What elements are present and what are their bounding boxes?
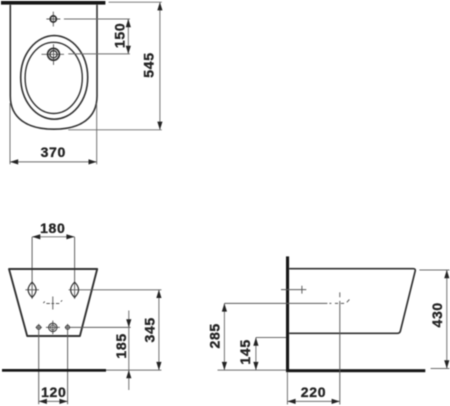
svg-text:150: 150 <box>111 23 127 48</box>
drain hole crosshair <box>46 321 60 335</box>
dimension 370 arrow left <box>10 159 18 164</box>
dimension 545 line <box>159 2 161 130</box>
dimension 430 arrow up <box>444 270 449 278</box>
drain centerline vertical (220 extension) <box>339 292 341 404</box>
small water inlet hole crosshair <box>46 12 60 27</box>
drain centerline horizontal (285 extension) <box>224 300 349 304</box>
dimension 285 line <box>223 303 225 370</box>
dimension 120 arrow right <box>59 399 67 404</box>
dimension 430 line <box>446 270 448 369</box>
left small hole centerline (extends to 120 dim) <box>38 324 40 404</box>
extension line left (220) <box>286 372 288 404</box>
dimension 145 arrow down <box>253 362 258 370</box>
extension line 145 top <box>256 337 286 339</box>
small water inlet hole <box>50 16 56 22</box>
dimension 285 arrow up <box>222 303 227 311</box>
bowl inner rim oval <box>25 42 82 113</box>
svg-text:285: 285 <box>206 323 222 348</box>
nozzle centerline vertical <box>52 297 54 310</box>
right fixing hole <box>71 282 79 297</box>
dimension 180 line <box>32 236 75 238</box>
dimension 145 arrow up <box>253 338 258 346</box>
tap hole crosshair <box>42 44 65 65</box>
dimension 220 line <box>287 400 339 402</box>
right small hole centerline (extends to 120 dim) <box>67 324 69 404</box>
extension line top (545) <box>109 1 162 3</box>
drain hole inner circle <box>50 325 55 330</box>
svg-text:545: 545 <box>141 52 157 77</box>
extension line bottom (545) <box>68 129 162 131</box>
tap hole inner circle <box>50 51 57 58</box>
extension line top (430) <box>419 269 449 271</box>
dimension 185 arrow down <box>126 319 131 327</box>
extension line floor left (285/145) <box>218 369 287 371</box>
dimension 120 line <box>39 400 68 402</box>
dimension 220 arrow right <box>332 399 340 404</box>
left fixing hole tick <box>25 289 39 291</box>
svg-text:185: 185 <box>113 333 129 358</box>
tap hole outer circle <box>48 48 60 60</box>
dimension 545 arrow down <box>157 122 162 130</box>
extension line left fixing hole <box>31 237 33 299</box>
dimension 150 line <box>127 19 129 54</box>
svg-text:430: 430 <box>429 302 445 327</box>
extension line right fixing hole <box>74 237 76 299</box>
left small hole <box>37 325 41 329</box>
dimension 180 arrow right <box>66 234 74 239</box>
dimension 285 arrow down <box>222 362 227 370</box>
extension line floor right (345/185) <box>106 369 161 371</box>
bidet front trapezoid <box>9 269 97 336</box>
dimension 120 arrow left <box>39 399 47 404</box>
front floor bar <box>2 369 106 372</box>
svg-text:145: 145 <box>237 339 253 364</box>
svg-text:220: 220 <box>301 384 326 400</box>
svg-text:120: 120 <box>41 384 66 400</box>
dimension 220 arrow left <box>287 399 295 404</box>
dimension 150 arrow up <box>126 19 131 27</box>
dimension 185 line <box>128 311 130 391</box>
extension line from inlet hole <box>64 18 130 20</box>
wall bar (top view) <box>1 1 105 5</box>
supply crosshair <box>281 286 306 294</box>
drain hole outer circle <box>49 323 57 331</box>
extension line right (370) <box>96 103 98 164</box>
right small hole <box>66 325 70 329</box>
dimension 345 line <box>158 290 160 370</box>
floor bar (side view) <box>286 369 425 372</box>
extension line from tap hole <box>68 53 130 55</box>
svg-text:370: 370 <box>41 144 66 160</box>
dimension 370 line <box>10 161 97 163</box>
dimension 150 arrow down <box>126 46 131 54</box>
dimension 345 arrow down <box>156 362 161 370</box>
left fixing hole <box>28 282 36 297</box>
dimension 430 arrow down <box>444 360 449 368</box>
nozzle dashed crosshair <box>43 300 62 303</box>
extension line bottom (430) <box>431 368 450 370</box>
dimension 370 arrow right <box>89 159 97 164</box>
left small hole tick <box>36 326 43 328</box>
right fixing hole tick + extension to 345 <box>69 289 162 291</box>
right small hole tick + extension to 185 <box>65 326 131 328</box>
dimension 185 arrow up <box>126 370 131 378</box>
svg-text:180: 180 <box>40 220 65 236</box>
bowl outer rim oval <box>21 36 88 120</box>
wall bar (side view) <box>286 256 289 370</box>
dimension 145 line <box>255 338 257 371</box>
dimension 345 arrow up <box>156 290 161 298</box>
extension line left (370) <box>9 103 11 164</box>
bidet body outline (top view) <box>10 5 97 129</box>
bidet side profile <box>289 269 415 334</box>
dimension 545 arrow up <box>157 2 162 10</box>
dimension 180 arrow left <box>32 234 40 239</box>
svg-text:345: 345 <box>142 317 158 342</box>
